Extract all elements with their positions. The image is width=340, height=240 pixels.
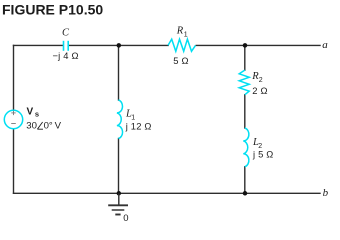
voltage source Vs circle: [4, 110, 22, 128]
wire top rail capacitor to R1: [69, 44, 168, 46]
voltage source minus sign: [11, 123, 16, 125]
svg-text:−j 4 Ω: −j 4 Ω: [53, 50, 79, 61]
ground bar top: [108, 204, 128, 206]
wire left rail lower: [13, 129, 15, 193]
svg-text:2 Ω: 2 Ω: [252, 85, 267, 96]
inductor L2: [243, 128, 249, 167]
resistor R1: [168, 39, 196, 51]
wire right rail lower: [244, 167, 246, 194]
wire top rail left of capacitor: [14, 44, 63, 46]
svg-text:j 12 Ω: j 12 Ω: [125, 120, 152, 131]
svg-text:30: 30: [26, 121, 37, 132]
ground stem: [118, 193, 120, 205]
wire left rail: [13, 45, 15, 109]
svg-text:0: 0: [123, 213, 128, 224]
wire middle rail lower: [118, 139, 120, 194]
wire middle rail upper: [118, 45, 120, 100]
node junction dot bottom middle: [117, 191, 122, 196]
svg-text:a: a: [322, 39, 328, 51]
svg-text:0°: 0°: [44, 121, 53, 132]
angle symbol: [37, 122, 43, 129]
node junction dot top middle: [117, 43, 122, 48]
ground bar bottom: [115, 214, 120, 216]
svg-text:j 5 Ω: j 5 Ω: [252, 149, 274, 160]
voltage source plus sign: [11, 111, 15, 115]
wire right rail between R2 and L2: [244, 95, 246, 128]
wire top rail R1 to terminal a: [196, 44, 320, 46]
wire bottom rail: [14, 192, 321, 194]
svg-text:V: V: [27, 106, 34, 117]
node junction dot top right: [243, 43, 248, 48]
svg-text:R: R: [176, 26, 184, 37]
svg-text:C: C: [62, 28, 70, 39]
resistor R2: [239, 70, 249, 95]
svg-text:FIGURE P10.50: FIGURE P10.50: [2, 2, 103, 18]
node junction dot bottom right: [243, 191, 248, 196]
capacitor C plates: [64, 41, 69, 51]
svg-text:2: 2: [259, 77, 263, 84]
wire right rail upper: [244, 45, 246, 70]
svg-text:V: V: [55, 121, 62, 132]
svg-text:b: b: [323, 187, 329, 199]
svg-text:s: s: [35, 110, 39, 119]
inductor L1: [117, 100, 123, 139]
svg-text:5 Ω: 5 Ω: [173, 55, 188, 66]
ground bar middle: [112, 209, 125, 211]
svg-text:1: 1: [184, 32, 188, 39]
